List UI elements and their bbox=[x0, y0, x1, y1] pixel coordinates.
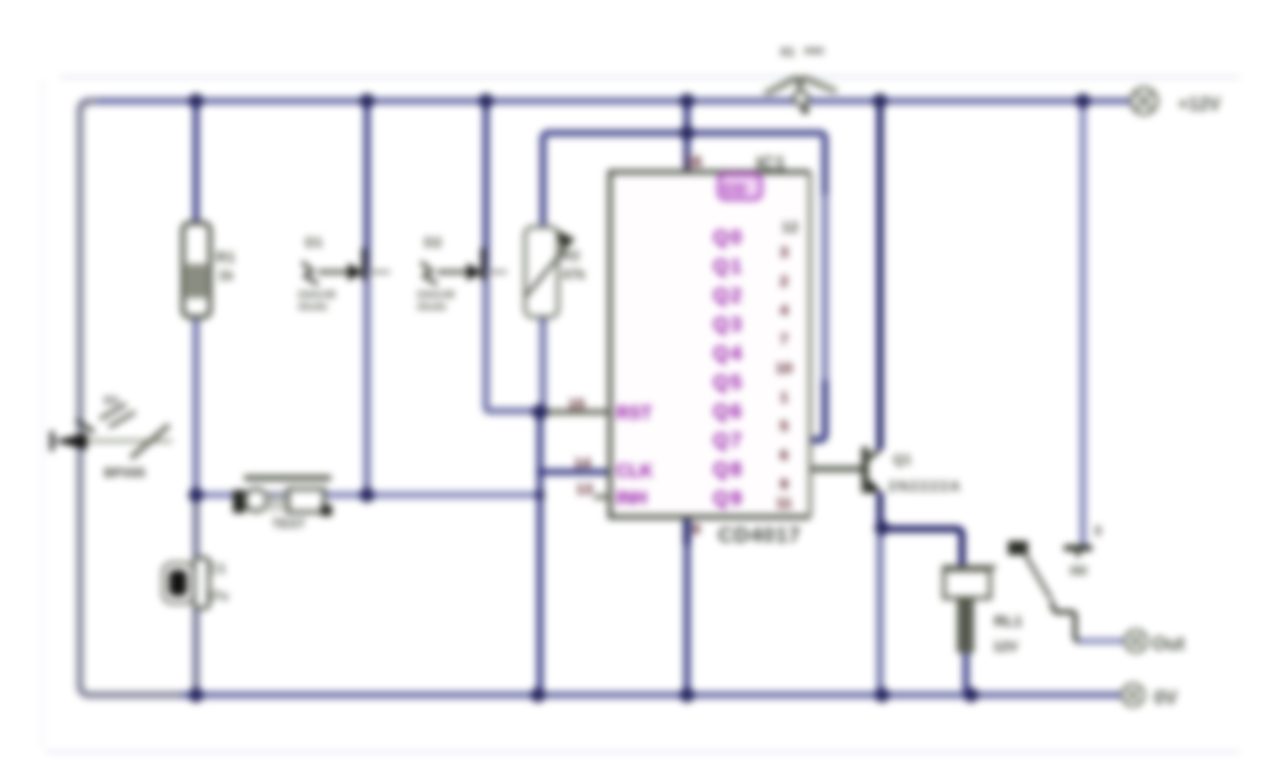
svg-text:D2: D2 bbox=[424, 234, 442, 250]
svg-text:Out: Out bbox=[1152, 634, 1185, 655]
IC U1 body bbox=[610, 154, 810, 547]
junction dot R1 branch/test net bbox=[189, 488, 204, 503]
svg-text:12: 12 bbox=[782, 219, 799, 236]
svg-text:BPX65: BPX65 bbox=[104, 465, 145, 480]
svg-text:1N4148: 1N4148 bbox=[416, 289, 455, 301]
junction dot pin8/bottom rail bbox=[680, 688, 695, 703]
wire feedback loop via VR1 x=543 top y=133 right x=825 down to Q7 bbox=[543, 133, 825, 415]
relay RL1 coil bbox=[942, 567, 1022, 654]
svg-text:11: 11 bbox=[776, 495, 792, 512]
svg-text:TEST: TEST bbox=[272, 516, 305, 531]
variable resistor VR1 bbox=[525, 227, 586, 317]
junction dot Q1 collector/top rail bbox=[873, 94, 888, 109]
svg-text:13: 13 bbox=[576, 481, 593, 498]
svg-text:4: 4 bbox=[780, 302, 789, 319]
svg-text:CLK: CLK bbox=[616, 461, 653, 481]
svg-text:Q0: Q0 bbox=[713, 227, 744, 249]
wire INH stub bbox=[594, 495, 610, 500]
svg-text:47k: 47k bbox=[562, 266, 586, 282]
IC U1 pin labels right bbox=[713, 174, 761, 510]
IC U1 pin numbers right bbox=[776, 219, 799, 512]
svg-text:Q1: Q1 bbox=[893, 451, 912, 467]
svg-text:Q1: Q1 bbox=[713, 256, 744, 278]
svg-text:R2: R2 bbox=[562, 247, 580, 263]
svg-text:1k: 1k bbox=[218, 267, 234, 283]
svg-text:1N4148: 1N4148 bbox=[297, 289, 336, 301]
wire switch common x=1083 from top rail bbox=[1080, 101, 1087, 545]
wire pin8 to bottom rail bbox=[684, 517, 691, 695]
svg-text:osc: osc bbox=[804, 43, 825, 57]
terminal Out bbox=[1125, 630, 1185, 655]
wire switch to Out terminal bbox=[1052, 601, 1090, 641]
junction dot Q1 emitter node bbox=[875, 521, 890, 536]
svg-text:1: 1 bbox=[780, 389, 788, 406]
svg-text:9: 9 bbox=[780, 476, 788, 493]
junction dot D1 branch/test net bbox=[360, 488, 375, 503]
svg-text:Q2: Q2 bbox=[713, 285, 744, 307]
wire R1 branch vertical x=196 bbox=[193, 101, 200, 695]
photodiode D3 on left branch bbox=[52, 395, 172, 480]
svg-text:X1: X1 bbox=[780, 45, 795, 59]
svg-text:CD4017: CD4017 bbox=[718, 524, 801, 547]
svg-text:8: 8 bbox=[692, 521, 700, 538]
junction dot pin16/feedback loop bbox=[680, 126, 695, 141]
pushbutton / sensor S1 bbox=[233, 478, 332, 531]
svg-text:2N2222A: 2N2222A bbox=[888, 478, 962, 495]
svg-text:D1: D1 bbox=[305, 234, 323, 250]
node RST junction bbox=[532, 404, 548, 420]
svg-text:15: 15 bbox=[568, 396, 585, 413]
junction dot CLK stub bbox=[536, 468, 544, 476]
diode D2 bbox=[416, 234, 507, 313]
svg-text:16: 16 bbox=[684, 154, 702, 171]
svg-text:3: 3 bbox=[1094, 523, 1101, 538]
wire node column x=540 down to bottom rail bbox=[537, 410, 544, 695]
svg-text:R1: R1 bbox=[216, 249, 235, 266]
wire CLK stub bbox=[540, 469, 610, 476]
wire D2 branch vertical x=486 with elbow to node RST bbox=[486, 101, 540, 411]
svg-text:CO: CO bbox=[723, 181, 746, 198]
wire pushbutton net y=495 bbox=[196, 492, 540, 499]
svg-text:47u: 47u bbox=[206, 588, 228, 603]
svg-text:RST: RST bbox=[616, 403, 652, 423]
svg-text:diode: diode bbox=[417, 301, 446, 313]
crystal / sensor X1 on top rail bbox=[762, 43, 838, 114]
wire emitter down to bottom rail bbox=[877, 492, 884, 695]
sheet border bbox=[60, 76, 1240, 79]
svg-text:Q4: Q4 bbox=[713, 343, 744, 365]
junction dot D1 branch/top rail bbox=[360, 94, 375, 109]
svg-text:7: 7 bbox=[780, 331, 788, 348]
junction dot C1/bottom rail bbox=[189, 688, 204, 703]
resistor R1 bbox=[183, 223, 235, 317]
svg-text:Q7: Q7 bbox=[713, 430, 744, 452]
junction dot switch common/top rail bbox=[1076, 94, 1091, 109]
svg-text:6: 6 bbox=[780, 447, 788, 464]
wire emitter to relay coil bbox=[880, 529, 962, 567]
wire relay coil to bottom rail bbox=[963, 650, 970, 695]
junction dot R1/top rail bbox=[189, 94, 204, 109]
junction dot test net crossing bbox=[535, 490, 545, 500]
terminal 0V bbox=[1122, 684, 1178, 709]
svg-text:INH: INH bbox=[616, 488, 647, 508]
wire RST stub bbox=[543, 409, 610, 415]
junction dot emitter branch/bottom rail bbox=[875, 688, 890, 703]
IC U1 pin labels left bbox=[616, 403, 653, 508]
svg-text:D3: D3 bbox=[104, 395, 118, 407]
junction dot D2 branch/top rail bbox=[479, 94, 494, 109]
svg-text:+12V: +12V bbox=[1178, 94, 1221, 114]
wire collector branch x=880 from top rail bbox=[877, 101, 884, 450]
svg-text:14: 14 bbox=[574, 455, 591, 472]
svg-text:C1: C1 bbox=[208, 560, 226, 576]
svg-text:Q3: Q3 bbox=[713, 314, 744, 336]
relay RL1 contacts bbox=[1008, 523, 1101, 599]
svg-text:Q6: Q6 bbox=[713, 401, 744, 423]
wire Vdd stub rail to pin16 bbox=[684, 101, 691, 172]
wire D1 branch vertical x=367 bbox=[364, 101, 371, 495]
svg-text:IC1: IC1 bbox=[756, 154, 786, 175]
junction dot VDD stub/top rail bbox=[680, 94, 695, 109]
svg-text:5: 5 bbox=[780, 418, 788, 435]
wire Q8 to transistor base bbox=[810, 466, 862, 472]
terminal +12V bbox=[1131, 88, 1221, 114]
svg-text:Q8: Q8 bbox=[713, 459, 744, 481]
IC U1 pin numbers left/top/bottom bbox=[568, 154, 702, 538]
diode D1 bbox=[297, 234, 390, 313]
wire main loop left/top/bottom rails bbox=[80, 101, 1136, 695]
svg-text:3: 3 bbox=[780, 244, 788, 261]
svg-text:diode: diode bbox=[298, 301, 327, 313]
svg-text:12V: 12V bbox=[993, 638, 1019, 654]
svg-text:0V: 0V bbox=[1154, 688, 1178, 709]
junction dot relay coil/bottom rail bbox=[964, 688, 979, 703]
junction dot node column/bottom rail bbox=[531, 688, 546, 703]
svg-text:2: 2 bbox=[780, 273, 788, 290]
svg-text:10: 10 bbox=[776, 360, 793, 377]
transistor Q1 bbox=[864, 447, 962, 495]
svg-text:Q9: Q9 bbox=[713, 488, 744, 510]
capacitor C1 electrolytic bbox=[163, 558, 228, 608]
svg-text:RL1: RL1 bbox=[994, 613, 1022, 630]
svg-text:Q5: Q5 bbox=[713, 372, 744, 394]
